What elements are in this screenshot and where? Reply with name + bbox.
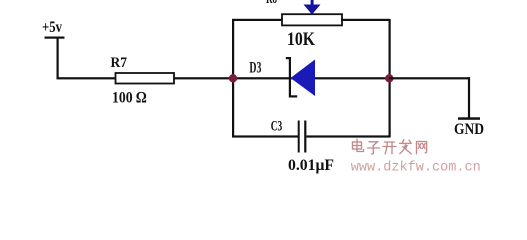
svg-text:R8: R8 <box>266 0 277 7</box>
node B junction <box>385 74 393 82</box>
power +5V <box>42 19 65 78</box>
svg-text:D3: D3 <box>249 60 261 77</box>
wire: top branch left <box>232 19 283 21</box>
子 <box>368 142 380 154</box>
电 <box>353 139 364 151</box>
node A junction <box>229 74 237 82</box>
wire: bottom branch right <box>307 135 391 137</box>
发 <box>400 140 412 154</box>
ground <box>454 117 484 138</box>
capacitor C3 <box>271 119 335 174</box>
网 <box>417 142 427 154</box>
resistor R8 10K potentiometer body <box>266 0 342 50</box>
wire: middle branch through D3 <box>232 77 390 79</box>
svg-text:0.01μF: 0.01μF <box>288 157 334 174</box>
wire: loop right vertical <box>389 19 391 137</box>
R8 wiper arrow <box>304 0 321 15</box>
svg-text:100 Ω: 100 Ω <box>112 90 147 107</box>
svg-text:+5v: +5v <box>42 19 62 36</box>
wire R7 to node A <box>174 77 234 79</box>
diode D3 (zener) <box>249 57 315 98</box>
svg-text:www.dzkfw.com.cn: www.dzkfw.com.cn <box>351 160 481 176</box>
wire: bottom branch left <box>232 135 299 137</box>
svg-text:C3: C3 <box>271 119 283 135</box>
resistor R7 <box>111 55 175 107</box>
wire: node B to ground <box>389 77 470 118</box>
watermark <box>353 139 427 154</box>
开 <box>383 142 396 154</box>
svg-text:GND: GND <box>454 121 484 138</box>
svg-text:10K: 10K <box>287 29 315 50</box>
wire: loop left vertical <box>232 19 234 137</box>
wire: top branch right <box>341 19 390 21</box>
svg-text:R7: R7 <box>111 55 128 71</box>
wire from +5V to R7 <box>57 77 117 79</box>
